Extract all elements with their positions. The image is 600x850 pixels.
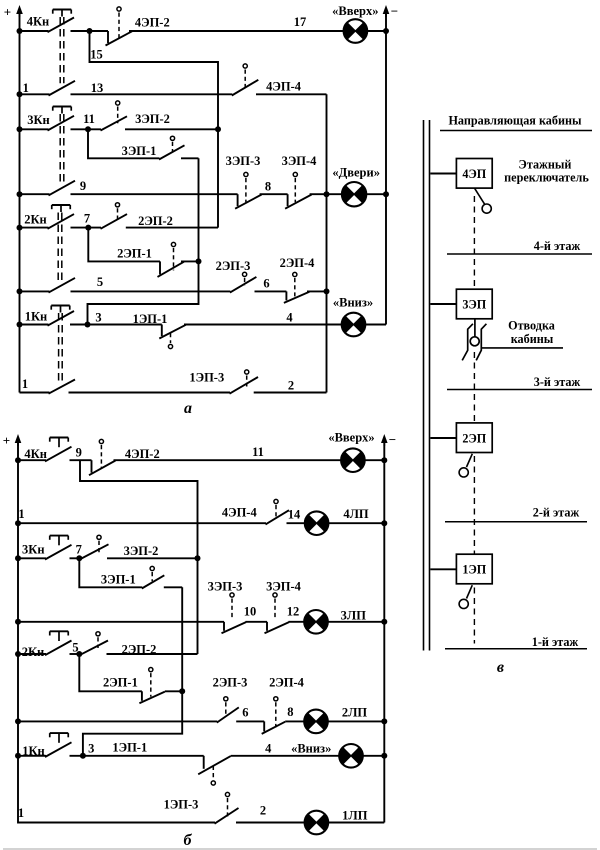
svg-text:3ЭП-2: 3ЭП-2: [135, 112, 170, 126]
lamp 2ЛП (б): [304, 706, 384, 734]
svg-text:17: 17: [294, 15, 307, 29]
contact 3ЭП-2 (a): [101, 101, 170, 131]
push-button 1Кн (circuit б): [18, 733, 72, 758]
svg-text:2ЭП-4: 2ЭП-4: [280, 256, 316, 270]
svg-text:1ЭП-1: 1ЭП-1: [133, 312, 168, 326]
lamp Двери (a): [332, 166, 380, 207]
svg-text:2ЛП: 2ЛП: [342, 706, 368, 720]
power rail − (right supply bus, circuit a): [383, 4, 399, 325]
contact 1ЭП-1 (б): [112, 740, 230, 785]
svg-text:1ЭП-3: 1ЭП-3: [189, 371, 224, 385]
contact 2ЭП-3 (a): [216, 259, 257, 293]
wire 1 (б): [18, 507, 266, 523]
svg-text:2ЭП-4: 2ЭП-4: [269, 676, 305, 690]
wire 2 (a): [254, 379, 327, 393]
contact 3ЭП-1 (a): [122, 136, 185, 159]
contact 1ЭП-1 (a): [133, 312, 186, 349]
wire 5 (б): [70, 640, 83, 657]
push-button 2Кн (circuit б): [18, 631, 72, 659]
floor level line 3-й этаж (в): [447, 375, 592, 390]
svg-text:1: 1: [22, 377, 28, 391]
junction dots on left rail (б): [15, 457, 21, 759]
power rail + (left supply bus, circuit a): [4, 5, 23, 393]
contact 2ЭП-2 (a): [101, 203, 173, 229]
vertical bus to Двери lamp (a): [324, 94, 330, 392]
dashed cabin travel axis 3ЭП-2ЭП (в): [473, 352, 475, 423]
lamp Вниз (б): [291, 741, 384, 767]
svg-text:4: 4: [286, 310, 293, 324]
wire to 2ЭП-1 (a): [88, 228, 198, 262]
svg-text:переключатель: переключатель: [504, 171, 589, 185]
lamp 4ЛП (б): [305, 507, 384, 535]
svg-text:2ЭП-3: 2ЭП-3: [213, 676, 248, 690]
svg-text:11: 11: [252, 445, 264, 459]
actuating lever of 2ЭП (в): [459, 454, 472, 477]
svg-text:2: 2: [288, 379, 294, 393]
wire 8 (a): [260, 179, 288, 194]
svg-text:2ЭП-2: 2ЭП-2: [138, 214, 173, 228]
svg-text:2: 2: [260, 804, 266, 818]
push-button 4Кн (circuit б): [18, 438, 72, 462]
wire 3ЛП row left (б): [18, 621, 224, 623]
floor level line 2-й этаж (в): [445, 506, 587, 522]
svg-text:б: б: [184, 832, 193, 849]
contact 2ЭП-3 (б): [213, 676, 248, 723]
svg-text:9: 9: [80, 179, 86, 193]
wire 2 to lamp 1ЛП (б): [236, 804, 305, 823]
svg-text:2ЭП-3: 2ЭП-3: [216, 259, 251, 273]
svg-text:3ЛП: 3ЛП: [341, 609, 367, 623]
dashed cabin travel axis 2ЭП-1ЭП (в): [473, 456, 475, 554]
wire 4 (a): [184, 310, 342, 324]
svg-text:9: 9: [76, 446, 82, 460]
svg-text:11: 11: [83, 112, 95, 126]
svg-text:1Кн: 1Кн: [25, 310, 48, 324]
junction dots on right rail (a): [383, 28, 389, 197]
svg-text:1: 1: [18, 507, 24, 521]
svg-text:1ЛП: 1ЛП: [342, 809, 368, 823]
wire from 2ЭП-4 to bus (a): [307, 290, 327, 292]
wire 7 (б): [70, 543, 83, 562]
wire 9 (б): [70, 446, 92, 461]
svg-text:8: 8: [287, 705, 293, 719]
wire 6 (a): [255, 277, 287, 292]
wire 2ЛП row left (б): [18, 720, 217, 722]
svg-text:4ЛП: 4ЛП: [343, 507, 369, 521]
branch wire from 4Кн to up-call bus (б): [80, 460, 201, 654]
svg-text:3ЭП-3: 3ЭП-3: [226, 154, 261, 168]
svg-text:4ЭП-4: 4ЭП-4: [266, 80, 302, 94]
wire 9 (a): [71, 179, 238, 194]
scan artifact line at bottom edge: [3, 848, 597, 850]
svg-text:8: 8: [265, 179, 271, 193]
svg-text:2Кн: 2Кн: [24, 212, 47, 226]
svg-text:3-й этаж: 3-й этаж: [534, 375, 581, 389]
dashed cabin travel axis 4ЭП-3ЭП (в): [473, 196, 475, 289]
power rail − (right supply bus, circuit б): [381, 432, 396, 823]
svg-text:«Вниз»: «Вниз»: [291, 741, 331, 755]
svg-text:1: 1: [18, 806, 24, 820]
svg-text:кабины: кабины: [511, 332, 554, 346]
svg-text:Этажный: Этажный: [519, 158, 572, 172]
push-button 3Кн (circuit б): [18, 536, 72, 560]
wire 3 (б): [70, 741, 204, 759]
svg-text:6: 6: [242, 706, 248, 720]
svg-text:1-й этаж: 1-й этаж: [532, 635, 579, 649]
svg-text:3ЭП-3: 3ЭП-3: [208, 580, 243, 594]
vertical bus from 3ЭП-1/2ЭП-1 to Вниз row (a): [88, 158, 202, 324]
svg-text:10: 10: [244, 605, 257, 619]
contact 3ЭП-4 (a): [282, 154, 318, 209]
contact 3ЭП-4 (б): [265, 580, 302, 634]
contact 1ЭП-3 (a): [189, 370, 258, 394]
wire to 3ЭП-1 (б): [79, 558, 142, 587]
cabin guide rail (в): [424, 114, 593, 651]
svg-text:3Кн: 3Кн: [22, 542, 45, 556]
contact 4ЭП-4 (a): [232, 64, 327, 96]
svg-text:15: 15: [90, 47, 103, 61]
svg-text:5: 5: [72, 640, 78, 654]
svg-text:7: 7: [84, 212, 90, 226]
push-button 3Кн (two poles, circuit a): [20, 107, 76, 196]
lamp 3ЛП (б): [304, 609, 384, 634]
svg-text:«Вверх»: «Вверх»: [332, 4, 378, 18]
floor switch box 4ЭП (в): [430, 159, 492, 189]
push-button 1Кн (two poles, circuit a): [20, 306, 76, 394]
svg-text:3ЭП-4: 3ЭП-4: [266, 580, 302, 594]
svg-text:«Вниз»: «Вниз»: [333, 296, 373, 310]
dashed cabin travel axis below 1ЭП (в): [473, 588, 475, 644]
contact 2ЭП-2 (б): [80, 632, 198, 657]
wire 10 (б): [244, 605, 267, 622]
wire 5 (a): [71, 275, 231, 291]
svg-text:2-й этаж: 2-й этаж: [533, 506, 580, 520]
lamp Вверх (a): [332, 4, 378, 43]
wire 7 (a): [71, 212, 219, 231]
svg-text:3: 3: [95, 310, 101, 324]
floor level line 1-й этаж (в): [445, 635, 587, 649]
svg-text:−: −: [391, 4, 398, 19]
wire 6 (б): [236, 706, 264, 722]
contact 4ЭП-2 (a): [106, 7, 170, 46]
svg-text:4ЭП-4: 4ЭП-4: [222, 506, 258, 520]
wire 17 (lamp row, a): [71, 15, 387, 34]
floor switch box 3ЭП (в): [430, 289, 492, 319]
svg-text:4ЭП: 4ЭП: [462, 167, 486, 181]
svg-text:2ЭП-1: 2ЭП-1: [103, 675, 138, 689]
svg-text:«Вверх»: «Вверх»: [328, 431, 374, 445]
contact 3ЭП-3 (б): [208, 580, 246, 634]
junction dots on left rail (a): [17, 28, 23, 328]
svg-text:−: −: [389, 432, 396, 447]
svg-text:3: 3: [88, 741, 94, 755]
wire 12 to lamp 3ЛП (б): [287, 605, 305, 622]
svg-text:1Кн: 1Кн: [22, 744, 45, 758]
cabin retractable cam Отводка кабины (в): [462, 319, 563, 361]
svg-text:13: 13: [91, 81, 104, 95]
svg-text:3ЭП: 3ЭП: [462, 298, 486, 312]
svg-text:2ЭП-1: 2ЭП-1: [117, 247, 152, 261]
svg-text:3Кн: 3Кн: [27, 113, 50, 127]
wire 13 (a): [23, 81, 233, 95]
svg-text:«Двери»: «Двери»: [332, 166, 380, 180]
label Этажный переключатель (в): [504, 158, 589, 185]
svg-text:4Кн: 4Кн: [27, 14, 50, 28]
wire 15 (a): [90, 31, 222, 228]
svg-text:+: +: [4, 5, 11, 20]
svg-text:в: в: [497, 659, 504, 676]
svg-text:4Кн: 4Кн: [24, 447, 47, 461]
wire 14 to lamp 4ЛП (б): [287, 507, 306, 523]
svg-text:Отводка: Отводка: [508, 319, 555, 333]
wire to 2ЭП-1 (б): [79, 654, 142, 691]
svg-text:Направляющая кабины: Направляющая кабины: [448, 114, 582, 128]
svg-text:5: 5: [97, 275, 103, 289]
wire 1 bottom row (a): [69, 392, 231, 394]
lamp Вверх (б): [328, 431, 384, 473]
svg-text:1: 1: [23, 81, 29, 95]
svg-text:2Кн: 2Кн: [22, 645, 45, 659]
svg-text:2ЭП-2: 2ЭП-2: [122, 643, 157, 657]
contact 3ЭП-3 (a): [226, 154, 262, 209]
svg-text:3ЭП-1: 3ЭП-1: [122, 144, 157, 158]
wire 8 to lamp 2ЛП (б): [285, 705, 304, 721]
floor switch box 1ЭП (в): [430, 554, 492, 584]
actuating lever of 1ЭП (в): [459, 585, 472, 608]
contact 4ЭП-2 (б): [89, 439, 160, 475]
push-button 2Кн (two poles, circuit a): [20, 205, 76, 293]
svg-text:3ЭП-4: 3ЭП-4: [282, 154, 318, 168]
push-button 4Кн (two poles, circuit a): [20, 10, 76, 96]
svg-text:1ЭП: 1ЭП: [462, 563, 486, 577]
wire to 3ЭП-1 (a): [88, 129, 199, 158]
svg-text:+: +: [3, 433, 10, 448]
svg-text:1ЭП-3: 1ЭП-3: [164, 798, 199, 812]
vertical bus from 3ЭП-1/2ЭП-1 to Вниз row (б): [83, 587, 185, 756]
wire 1 bottom row (б): [18, 806, 215, 822]
power rail + (left supply bus, circuit б): [3, 433, 22, 823]
svg-text:3ЭП-2: 3ЭП-2: [124, 544, 159, 558]
lamp Вниз (a): [333, 296, 386, 337]
contact 3ЭП-1 (б): [101, 566, 182, 588]
lamp 1ЛП (б): [305, 809, 385, 835]
wire 4 (б): [231, 741, 340, 756]
svg-text:а: а: [184, 400, 192, 417]
junction dots on right rail (б): [381, 457, 387, 759]
floor level line 4-й этаж (в): [447, 239, 592, 254]
contact 2ЭП-1 (a): [117, 242, 184, 277]
svg-text:4ЭП-2: 4ЭП-2: [125, 447, 160, 461]
svg-text:7: 7: [76, 543, 82, 557]
svg-text:4ЭП-2: 4ЭП-2: [135, 16, 170, 30]
contact 2ЭП-4 (б): [262, 676, 305, 734]
floor switch box 2ЭП (в): [430, 423, 492, 453]
svg-text:2ЭП: 2ЭП: [462, 431, 486, 445]
svg-text:1ЭП-1: 1ЭП-1: [112, 740, 147, 754]
wire to Двери lamp (a): [310, 193, 386, 195]
contact 2ЭП-1 (б): [103, 668, 182, 704]
contact 2ЭП-4 (a): [280, 256, 316, 303]
wire 11 (б): [114, 445, 342, 460]
actuating lever of 4ЭП (в): [475, 188, 492, 213]
svg-text:3ЭП-1: 3ЭП-1: [101, 572, 136, 586]
contact 3ЭП-2 (б): [80, 535, 198, 559]
contact 4ЭП-4 (б): [222, 499, 289, 524]
svg-text:4: 4: [265, 741, 272, 755]
wire 11 (a): [71, 112, 219, 133]
svg-text:4-й этаж: 4-й этаж: [534, 239, 581, 253]
svg-text:6: 6: [263, 277, 269, 291]
contact 1ЭП-3 (б): [164, 792, 239, 823]
wire 3 (a): [70, 310, 162, 327]
svg-text:14: 14: [288, 507, 301, 521]
svg-text:12: 12: [287, 605, 300, 619]
